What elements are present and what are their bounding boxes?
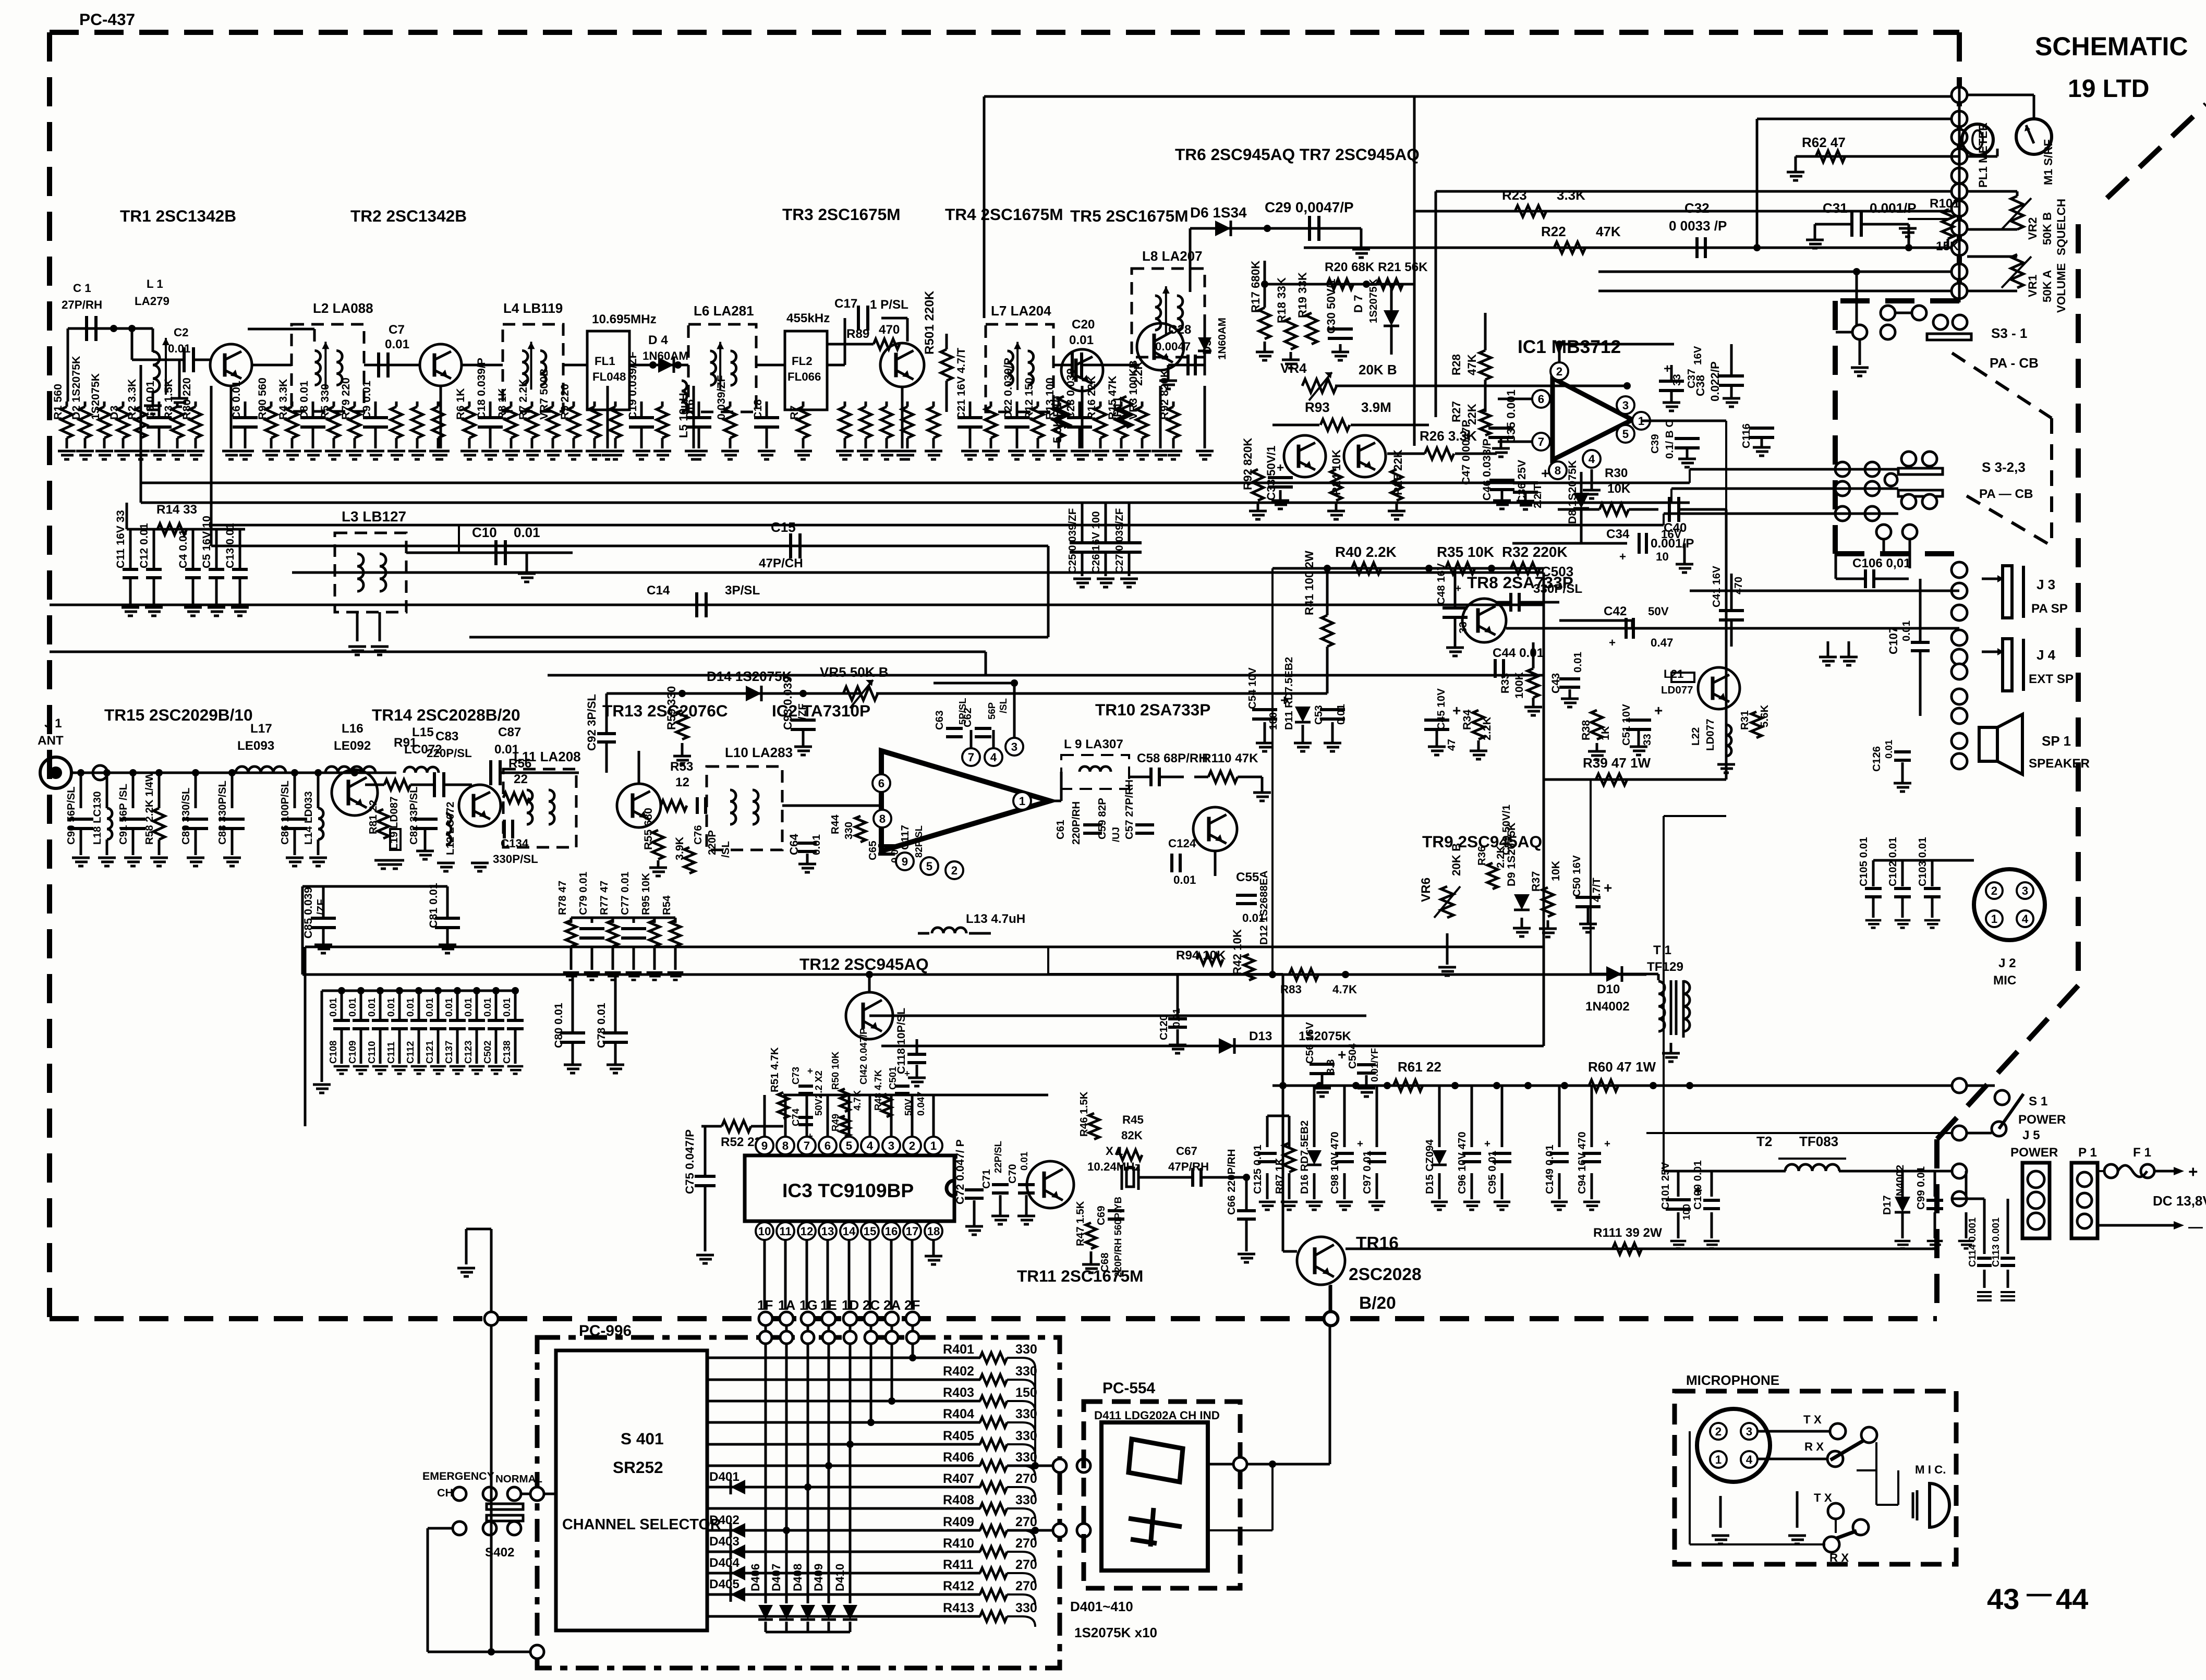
svg-text:PA SP: PA SP bbox=[2031, 602, 2068, 616]
svg-text:10: 10 bbox=[1656, 550, 1669, 563]
svg-text:43: 43 bbox=[1987, 1582, 2019, 1615]
svg-text:C18 0.039/P: C18 0.039/P bbox=[475, 358, 488, 420]
svg-text:C26 16V 100: C26 16V 100 bbox=[1090, 511, 1102, 574]
svg-text:470: 470 bbox=[879, 323, 900, 337]
svg-text:C137: C137 bbox=[443, 1041, 454, 1064]
svg-text:R81 22: R81 22 bbox=[367, 800, 379, 834]
svg-text:3.9M: 3.9M bbox=[1361, 399, 1391, 415]
svg-text:0.01: 0.01 bbox=[1173, 873, 1196, 886]
svg-text:R8 1K: R8 1K bbox=[496, 388, 508, 420]
svg-text:FL066: FL066 bbox=[787, 370, 821, 383]
svg-text:C99 0.01: C99 0.01 bbox=[1915, 1166, 1927, 1210]
svg-text:C138: C138 bbox=[501, 1041, 512, 1064]
svg-text:C28: C28 bbox=[1168, 323, 1191, 337]
svg-text:R9 220: R9 220 bbox=[559, 384, 571, 420]
svg-text:D408: D408 bbox=[791, 1564, 804, 1591]
svg-text:C33 50V/1: C33 50V/1 bbox=[1265, 446, 1278, 501]
svg-text:VR5 50K B: VR5 50K B bbox=[820, 664, 889, 680]
svg-text:50V: 50V bbox=[903, 1098, 914, 1116]
svg-text:/UJ: /UJ bbox=[1110, 827, 1121, 842]
svg-text:C124: C124 bbox=[1168, 837, 1196, 850]
svg-text:50K A: 50K A bbox=[2041, 270, 2054, 302]
svg-text:1: 1 bbox=[930, 1139, 937, 1152]
svg-text:R53: R53 bbox=[670, 760, 693, 774]
svg-text:R32 220K: R32 220K bbox=[1502, 544, 1568, 560]
svg-text:J 4: J 4 bbox=[2037, 647, 2056, 663]
svg-text:330P/SL: 330P/SL bbox=[1533, 582, 1582, 596]
svg-text:C31: C31 bbox=[1823, 200, 1848, 216]
svg-text:47P/CH: 47P/CH bbox=[759, 556, 803, 570]
svg-text:47: 47 bbox=[1446, 739, 1458, 751]
svg-text:330: 330 bbox=[1015, 1364, 1037, 1379]
svg-text:PL1 METER: PL1 METER bbox=[1977, 123, 1990, 188]
svg-text:1S2075K: 1S2075K bbox=[89, 373, 102, 420]
svg-text:C27 0.039/ZF: C27 0.039/ZF bbox=[1113, 508, 1125, 574]
svg-text:33: 33 bbox=[1457, 622, 1469, 634]
svg-text:1N60AM: 1N60AM bbox=[643, 349, 688, 362]
svg-text:0.01: 0.01 bbox=[1019, 1152, 1029, 1171]
svg-text:0.1/ B C: 0.1/ B C bbox=[1664, 420, 1676, 459]
svg-text:1: 1 bbox=[1991, 912, 1997, 926]
svg-text:1A: 1A bbox=[778, 1297, 795, 1313]
svg-text:18: 18 bbox=[927, 1225, 940, 1238]
svg-text:R37: R37 bbox=[1530, 871, 1542, 892]
svg-text:/ZF: /ZF bbox=[315, 899, 327, 915]
svg-text:D401~410: D401~410 bbox=[1070, 1599, 1133, 1614]
svg-text:LD077: LD077 bbox=[1661, 684, 1693, 696]
svg-text:L16: L16 bbox=[342, 722, 363, 736]
svg-text:R5 330: R5 330 bbox=[319, 384, 331, 420]
svg-text:R89: R89 bbox=[846, 327, 869, 341]
svg-text:1N4002: 1N4002 bbox=[1585, 1000, 1630, 1014]
svg-text:22P/SL: 22P/SL bbox=[992, 1141, 1003, 1173]
svg-text:8: 8 bbox=[1555, 464, 1561, 477]
svg-text:C73: C73 bbox=[790, 1067, 801, 1085]
svg-text:2: 2 bbox=[951, 864, 957, 877]
svg-text:0.01: 0.01 bbox=[463, 998, 474, 1017]
svg-text:C75 0.047/P: C75 0.047/P bbox=[683, 1129, 696, 1194]
svg-text:C56 16V: C56 16V bbox=[1304, 1022, 1316, 1064]
svg-text:L2 LA088: L2 LA088 bbox=[313, 300, 373, 316]
svg-text:D16 RD7.5EB2: D16 RD7.5EB2 bbox=[1299, 1121, 1311, 1194]
svg-text:TR4 2SC1675M: TR4 2SC1675M bbox=[945, 205, 1063, 224]
svg-text:+: + bbox=[807, 1065, 813, 1076]
svg-text:0.01: 0.01 bbox=[424, 998, 435, 1017]
svg-text:POWER: POWER bbox=[2018, 1113, 2066, 1127]
svg-text:C69: C69 bbox=[1095, 1206, 1107, 1225]
svg-text:IC1 MB3712: IC1 MB3712 bbox=[1518, 337, 1621, 357]
svg-text:56P: 56P bbox=[986, 702, 997, 720]
svg-text:C82 33P/SL: C82 33P/SL bbox=[408, 786, 420, 845]
svg-text:1 P/SL: 1 P/SL bbox=[870, 298, 908, 312]
svg-text:C8 0.01: C8 0.01 bbox=[298, 381, 310, 420]
svg-text:C30 50V/1: C30 50V/1 bbox=[1325, 279, 1338, 334]
svg-text:2: 2 bbox=[1556, 365, 1562, 378]
svg-text:C109: C109 bbox=[347, 1041, 358, 1064]
svg-text:FL048: FL048 bbox=[592, 370, 626, 383]
svg-text:L 9 LA307: L 9 LA307 bbox=[1064, 737, 1123, 751]
svg-text:100K: 100K bbox=[1513, 672, 1525, 699]
svg-text:270: 270 bbox=[1015, 1471, 1037, 1486]
svg-text:TR5 2SC1675M: TR5 2SC1675M bbox=[1070, 206, 1189, 225]
svg-text:R39 47 1W: R39 47 1W bbox=[1583, 755, 1651, 771]
svg-text:C86 100P/SL: C86 100P/SL bbox=[279, 781, 291, 845]
svg-text:C20: C20 bbox=[1072, 318, 1095, 332]
svg-text:C113 0.001: C113 0.001 bbox=[1990, 1218, 2001, 1267]
svg-text:C125 0.01: C125 0.01 bbox=[1252, 1145, 1264, 1194]
svg-text:19 LTD: 19 LTD bbox=[2068, 75, 2149, 103]
svg-text:S3 - 1: S3 - 1 bbox=[1991, 325, 2027, 341]
svg-text:R16 22K: R16 22K bbox=[1085, 375, 1098, 420]
svg-text:F 1: F 1 bbox=[2133, 1146, 2151, 1160]
svg-text:2F: 2F bbox=[904, 1297, 920, 1313]
svg-text:22: 22 bbox=[514, 772, 528, 786]
svg-text:+: + bbox=[1452, 702, 1461, 719]
svg-text:R44: R44 bbox=[829, 814, 841, 834]
svg-text:2C: 2C bbox=[863, 1297, 880, 1313]
svg-text:C17: C17 bbox=[834, 297, 857, 311]
svg-text:/ZF: /ZF bbox=[796, 703, 808, 720]
svg-text:+: + bbox=[807, 1130, 813, 1141]
svg-text:2: 2 bbox=[1715, 1425, 1722, 1438]
svg-text:R12 150: R12 150 bbox=[1023, 378, 1035, 420]
svg-text:C103 0.01: C103 0.01 bbox=[1917, 837, 1929, 886]
svg-text:8: 8 bbox=[879, 812, 886, 825]
svg-text:1D: 1D bbox=[842, 1297, 859, 1313]
svg-text:TR2 2SC1342B: TR2 2SC1342B bbox=[350, 206, 467, 225]
svg-text:R13 100: R13 100 bbox=[1044, 378, 1056, 420]
svg-text:/SL: /SL bbox=[998, 698, 1009, 713]
svg-text:0.01: 0.01 bbox=[347, 998, 358, 1017]
svg-text:R4 3.3K: R4 3.3K bbox=[277, 379, 289, 420]
svg-text:C9 0.01: C9 0.01 bbox=[360, 381, 373, 420]
svg-text:T2: T2 bbox=[1756, 1134, 1772, 1149]
svg-text:3: 3 bbox=[1746, 1425, 1752, 1438]
svg-text:D 7: D 7 bbox=[1352, 295, 1365, 313]
svg-text:POWER: POWER bbox=[2010, 1146, 2058, 1160]
svg-text:4: 4 bbox=[990, 751, 997, 764]
svg-text:C93 0.039: C93 0.039 bbox=[781, 676, 794, 730]
svg-text:330: 330 bbox=[843, 822, 855, 839]
svg-text:C14: C14 bbox=[647, 583, 670, 598]
svg-text:20K B: 20K B bbox=[1359, 362, 1397, 378]
svg-text:4.7K: 4.7K bbox=[1332, 983, 1357, 996]
svg-text:P 1: P 1 bbox=[2078, 1146, 2097, 1160]
svg-text:D3: D3 bbox=[108, 406, 120, 420]
svg-text:C62: C62 bbox=[962, 708, 974, 727]
svg-text:D404: D404 bbox=[709, 1556, 740, 1570]
svg-text:TR11 2SC1675M: TR11 2SC1675M bbox=[1017, 1267, 1143, 1285]
svg-text:L 1: L 1 bbox=[147, 277, 163, 290]
svg-text:LD077: LD077 bbox=[1704, 719, 1716, 751]
svg-text:R1 560: R1 560 bbox=[52, 384, 64, 420]
svg-text:9: 9 bbox=[902, 855, 908, 868]
svg-text:+: + bbox=[1664, 362, 1671, 376]
svg-text:150: 150 bbox=[1015, 1385, 1037, 1400]
svg-text:1: 1 bbox=[1715, 1453, 1722, 1466]
svg-text:C77 0.01: C77 0.01 bbox=[619, 872, 631, 915]
svg-text:T X: T X bbox=[1814, 1491, 1832, 1504]
svg-text:R410: R410 bbox=[943, 1536, 974, 1551]
svg-text:330: 330 bbox=[1015, 1493, 1037, 1507]
svg-text:C502: C502 bbox=[482, 1041, 493, 1064]
svg-text:0.01: 0.01 bbox=[514, 525, 540, 540]
svg-text:330: 330 bbox=[1015, 1429, 1037, 1443]
svg-text:C59 82P: C59 82P bbox=[1096, 798, 1108, 839]
svg-text:D406: D406 bbox=[749, 1564, 762, 1591]
svg-text:R110 47K: R110 47K bbox=[1202, 751, 1258, 765]
svg-text:FL1: FL1 bbox=[595, 355, 615, 368]
svg-text:16: 16 bbox=[885, 1225, 898, 1238]
svg-text:50K B: 50K B bbox=[2041, 212, 2054, 245]
svg-text:D402: D402 bbox=[709, 1513, 740, 1527]
svg-text:0.01: 0.01 bbox=[385, 998, 396, 1017]
svg-text:C45 10V: C45 10V bbox=[1435, 688, 1447, 730]
svg-text:6: 6 bbox=[825, 1139, 831, 1152]
svg-text:3P/SL: 3P/SL bbox=[725, 583, 760, 598]
svg-text:VOLUME: VOLUME bbox=[2055, 263, 2068, 313]
svg-text:0.01: 0.01 bbox=[1572, 652, 1584, 673]
svg-text:10K: 10K bbox=[1549, 860, 1562, 881]
svg-text:C98 10V 470: C98 10V 470 bbox=[1329, 1131, 1341, 1194]
svg-text:R93: R93 bbox=[1305, 399, 1330, 415]
svg-text:27P/RH: 27P/RH bbox=[62, 298, 102, 311]
svg-text:M1 S/RF: M1 S/RF bbox=[2042, 139, 2055, 185]
svg-text:0.01: 0.01 bbox=[1883, 740, 1894, 759]
svg-text:C114 0.001: C114 0.001 bbox=[1967, 1218, 1978, 1267]
svg-text:D17: D17 bbox=[1881, 1195, 1893, 1215]
svg-text:R51 4.7K: R51 4.7K bbox=[769, 1047, 781, 1092]
svg-text:S 401: S 401 bbox=[621, 1429, 664, 1448]
svg-text:NORMAL: NORMAL bbox=[495, 1473, 542, 1485]
svg-text:C11 16V 33: C11 16V 33 bbox=[114, 510, 127, 568]
svg-text:1: 1 bbox=[1019, 795, 1025, 808]
svg-text:+: + bbox=[1357, 1138, 1363, 1150]
svg-text:C107: C107 bbox=[1887, 627, 1900, 654]
svg-text:2.2K: 2.2K bbox=[1481, 716, 1493, 740]
svg-text:D6 1S34: D6 1S34 bbox=[1190, 204, 1247, 221]
svg-text:R58 2.2K 1/4W: R58 2.2K 1/4W bbox=[143, 771, 155, 845]
svg-text:R7: R7 bbox=[788, 406, 801, 420]
svg-text:R23: R23 bbox=[1502, 187, 1527, 203]
svg-text:15: 15 bbox=[864, 1225, 877, 1238]
svg-text:C12 0.01: C12 0.01 bbox=[138, 523, 150, 568]
svg-text:0.01: 0.01 bbox=[482, 998, 493, 1017]
svg-text:D405: D405 bbox=[709, 1577, 740, 1591]
svg-text:C97 0.01: C97 0.01 bbox=[1361, 1151, 1373, 1194]
svg-text:EMERGENCY: EMERGENCY bbox=[422, 1470, 494, 1482]
svg-text:C19 0.039/ZF: C19 0.039/ZF bbox=[626, 351, 639, 420]
svg-text:5: 5 bbox=[926, 860, 932, 873]
svg-text:C121: C121 bbox=[424, 1041, 435, 1064]
svg-text:R22: R22 bbox=[1541, 224, 1566, 239]
svg-text:330: 330 bbox=[1015, 1407, 1037, 1421]
svg-text:1S2075K: 1S2075K bbox=[1367, 278, 1379, 323]
svg-text:C 1: C 1 bbox=[73, 282, 91, 295]
svg-text:C81 0.01: C81 0.01 bbox=[427, 883, 440, 928]
svg-text:44: 44 bbox=[2056, 1582, 2088, 1615]
svg-text:C95 0.01: C95 0.01 bbox=[1486, 1151, 1498, 1194]
svg-text:100: 100 bbox=[1681, 1204, 1692, 1220]
svg-text:3.3: 3.3 bbox=[1325, 1060, 1337, 1075]
svg-text:TR14 2SC2028B/20: TR14 2SC2028B/20 bbox=[372, 705, 520, 724]
svg-text:220P: 220P bbox=[706, 830, 718, 855]
svg-text:C112: C112 bbox=[405, 1041, 416, 1064]
svg-text:C13 0.01: C13 0.01 bbox=[224, 523, 236, 568]
svg-text:C102 0.01: C102 0.01 bbox=[1887, 837, 1899, 886]
svg-text:R47 1.5K: R47 1.5K bbox=[1074, 1201, 1086, 1246]
svg-text:L14 LD033: L14 LD033 bbox=[302, 791, 314, 845]
svg-text:3: 3 bbox=[1622, 399, 1629, 412]
svg-text:R X: R X bbox=[1829, 1551, 1849, 1564]
svg-text:0.01: 0.01 bbox=[405, 998, 416, 1017]
svg-text:LA279: LA279 bbox=[135, 295, 169, 308]
svg-text:D409: D409 bbox=[812, 1564, 825, 1591]
svg-text:J 3: J 3 bbox=[2037, 577, 2055, 592]
svg-text:C18: C18 bbox=[752, 399, 764, 420]
svg-text:5: 5 bbox=[1622, 428, 1629, 441]
svg-text:R7 2.2K: R7 2.2K bbox=[517, 379, 529, 420]
svg-text:C21 16V 4.7/T: C21 16V 4.7/T bbox=[955, 348, 967, 420]
svg-text:9: 9 bbox=[761, 1139, 768, 1152]
svg-text:R90 560: R90 560 bbox=[256, 378, 269, 420]
svg-text:R41 100 2W: R41 100 2W bbox=[1303, 550, 1316, 615]
svg-text:R411: R411 bbox=[943, 1557, 974, 1572]
svg-text:R54: R54 bbox=[661, 895, 673, 915]
svg-text:PA - CB: PA - CB bbox=[1990, 355, 2039, 371]
svg-text:7: 7 bbox=[968, 751, 974, 764]
svg-text:3: 3 bbox=[888, 1139, 894, 1152]
svg-text:R95 10K: R95 10K bbox=[640, 873, 652, 915]
svg-text:R14 33: R14 33 bbox=[156, 503, 197, 517]
svg-text:3.3K: 3.3K bbox=[1557, 187, 1585, 203]
svg-text:0.039/ZF: 0.039/ZF bbox=[715, 375, 728, 420]
svg-text:C110: C110 bbox=[366, 1041, 377, 1064]
svg-text:D407: D407 bbox=[770, 1564, 783, 1591]
svg-text:C66 220P/RH: C66 220P/RH bbox=[1226, 1149, 1238, 1215]
svg-text:J 1: J 1 bbox=[44, 716, 62, 731]
svg-text:SCHEMATIC: SCHEMATIC bbox=[2035, 32, 2188, 61]
svg-text:C503: C503 bbox=[1541, 564, 1573, 579]
svg-text:4: 4 bbox=[1746, 1453, 1753, 1466]
svg-text:C85 0.039: C85 0.039 bbox=[302, 887, 314, 939]
svg-text:R77 47: R77 47 bbox=[598, 881, 610, 915]
svg-text:82K: 82K bbox=[1121, 1129, 1143, 1142]
svg-text:270: 270 bbox=[1015, 1579, 1037, 1593]
svg-text:270: 270 bbox=[1015, 1557, 1037, 1572]
svg-text:D403: D403 bbox=[709, 1535, 740, 1549]
svg-text:R404: R404 bbox=[943, 1407, 974, 1421]
svg-text:TR12 2SC945AQ: TR12 2SC945AQ bbox=[799, 955, 929, 973]
svg-text:C88 330P/SL: C88 330P/SL bbox=[216, 781, 228, 845]
svg-text:455kHz: 455kHz bbox=[786, 311, 830, 325]
svg-text:R402: R402 bbox=[943, 1364, 974, 1379]
svg-text:SPEAKER: SPEAKER bbox=[2029, 757, 2090, 771]
svg-text:R101: R101 bbox=[1930, 197, 1960, 211]
svg-text:C55: C55 bbox=[1236, 870, 1259, 884]
svg-text:C43: C43 bbox=[1549, 673, 1562, 693]
svg-text:R413: R413 bbox=[943, 1601, 974, 1615]
svg-text:0 0033 /P: 0 0033 /P bbox=[1669, 218, 1727, 234]
svg-text:C108: C108 bbox=[328, 1041, 338, 1064]
svg-text:C87: C87 bbox=[498, 725, 521, 739]
svg-text:0.47: 0.47 bbox=[1651, 636, 1673, 649]
svg-text:C79 0.01: C79 0.01 bbox=[577, 872, 589, 915]
svg-text:20K B: 20K B bbox=[1450, 843, 1463, 876]
svg-text:0.001/P: 0.001/P bbox=[1870, 200, 1917, 216]
svg-text:C91 56P /SL: C91 56P /SL bbox=[117, 784, 129, 845]
svg-text:0.01: 0.01 bbox=[1335, 704, 1347, 725]
svg-text:L18 LC130: L18 LC130 bbox=[91, 791, 103, 845]
svg-text:0.01: 0.01 bbox=[1069, 333, 1094, 347]
svg-text:+: + bbox=[2188, 1162, 2198, 1181]
svg-text:C72 0.047/ P: C72 0.047/ P bbox=[954, 1139, 966, 1204]
svg-text:L11 LA208: L11 LA208 bbox=[514, 749, 581, 764]
svg-text:0.01: 0.01 bbox=[443, 998, 454, 1017]
svg-text:L8 LA207: L8 LA207 bbox=[1142, 248, 1203, 264]
svg-text:1F: 1F bbox=[757, 1297, 773, 1313]
svg-text:C29 0,0047/P: C29 0,0047/P bbox=[1265, 199, 1354, 215]
svg-text:PC-437: PC-437 bbox=[79, 10, 135, 29]
svg-text:1N60AM: 1N60AM bbox=[1216, 318, 1228, 360]
svg-text:D11 RD7.5EB2: D11 RD7.5EB2 bbox=[1283, 657, 1295, 730]
svg-text:5.6K: 5.6K bbox=[1759, 705, 1771, 727]
svg-text:VR1: VR1 bbox=[2026, 275, 2039, 297]
svg-text:10: 10 bbox=[758, 1225, 771, 1238]
svg-text:L17: L17 bbox=[250, 722, 272, 736]
svg-text:TR6 2SC945AQ TR7 2SC945AQ: TR6 2SC945AQ TR7 2SC945AQ bbox=[1175, 145, 1420, 164]
svg-text:16V: 16V bbox=[1692, 346, 1704, 365]
svg-text:R79 220: R79 220 bbox=[340, 378, 352, 420]
svg-text:0.01: 0.01 bbox=[328, 998, 338, 1017]
svg-text:R409: R409 bbox=[943, 1515, 974, 1529]
svg-text:C111: C111 bbox=[385, 1042, 396, 1064]
svg-text:L4 LB119: L4 LB119 bbox=[503, 300, 563, 316]
svg-text:0.01/YF: 0.01/YF bbox=[1369, 1048, 1380, 1082]
svg-text:R46 1.5K: R46 1.5K bbox=[1078, 1091, 1090, 1137]
svg-text:R403: R403 bbox=[943, 1385, 974, 1400]
svg-text:2: 2 bbox=[1991, 884, 1997, 897]
svg-text:50V: 50V bbox=[1648, 605, 1669, 618]
svg-text:10K: 10K bbox=[1607, 482, 1631, 496]
svg-text:C51 10V: C51 10V bbox=[1620, 704, 1632, 746]
svg-text:VR2: VR2 bbox=[2026, 217, 2039, 240]
svg-text:C22 0.039/P: C22 0.039/P bbox=[1002, 358, 1014, 420]
svg-text:MICROPHONE: MICROPHONE bbox=[1686, 1372, 1779, 1388]
svg-text:D8 1S2075K: D8 1S2075K bbox=[1566, 460, 1579, 524]
svg-text:MIC: MIC bbox=[1993, 973, 2016, 988]
svg-text:13: 13 bbox=[821, 1225, 834, 1238]
svg-text:CHANNEL SELECTOR: CHANNEL SELECTOR bbox=[562, 1516, 721, 1533]
svg-text:1G: 1G bbox=[799, 1297, 818, 1313]
svg-text:0.01: 0.01 bbox=[810, 834, 822, 855]
svg-text:0.01: 0.01 bbox=[1900, 620, 1912, 641]
svg-text:330: 330 bbox=[1015, 1601, 1037, 1615]
svg-text:C100 0.01: C100 0.01 bbox=[1692, 1160, 1704, 1210]
svg-text:1E: 1E bbox=[820, 1297, 837, 1313]
svg-text:L13 4.7uH: L13 4.7uH bbox=[966, 912, 1025, 926]
svg-text:C23 0.039: C23 0.039 bbox=[1064, 368, 1077, 420]
svg-text:1K: 1K bbox=[1599, 726, 1611, 740]
svg-text:+: + bbox=[1484, 1138, 1490, 1150]
svg-text:L22: L22 bbox=[1690, 727, 1702, 746]
svg-text:270: 270 bbox=[1015, 1536, 1037, 1551]
svg-text:R49: R49 bbox=[830, 1114, 841, 1131]
svg-text:D2 1S2075K: D2 1S2075K bbox=[70, 356, 82, 420]
svg-text:R35 10K: R35 10K bbox=[1437, 544, 1494, 560]
svg-text:3: 3 bbox=[2022, 884, 2028, 897]
svg-text:C61: C61 bbox=[1054, 820, 1066, 839]
